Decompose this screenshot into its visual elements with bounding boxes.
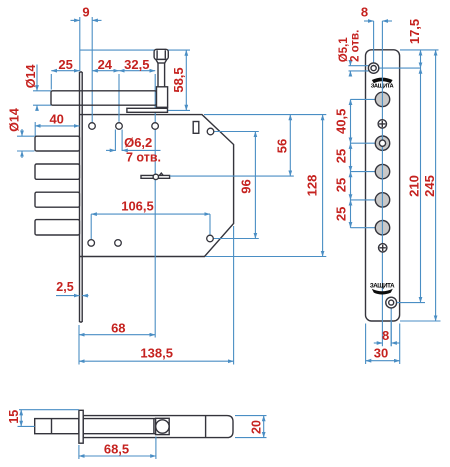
dim 128 line bbox=[322, 115, 324, 257]
bolt segment line bbox=[51, 419, 53, 434]
dim 40 line bbox=[35, 125, 80, 127]
svg-text:9: 9 bbox=[82, 5, 89, 20]
svg-text:128: 128 bbox=[305, 175, 320, 197]
hole H2 bbox=[116, 123, 123, 130]
centre line hole col3 / cam / 68 dim bbox=[154, 74, 156, 338]
logo top bbox=[372, 78, 393, 84]
dim 17,5 + 210 shared line bbox=[420, 50, 422, 68]
svg-text:Ø5,1: Ø5,1 bbox=[338, 37, 350, 63]
bolt B2 bbox=[35, 164, 80, 179]
svg-text:96: 96 bbox=[239, 179, 254, 193]
dim 138.5 line bbox=[79, 360, 234, 362]
chain arrows bbox=[350, 99, 352, 107]
cylinder hole C1 bbox=[375, 92, 389, 106]
hole H1 bbox=[89, 123, 96, 130]
svg-text:245: 245 bbox=[422, 175, 437, 197]
deadbolt assembly (drawn over blue lines) bbox=[51, 49, 168, 112]
cylinder hole C2 bbox=[375, 164, 389, 178]
bottom fixing hole 2otv bbox=[386, 297, 397, 308]
extension bolt tip bbox=[50, 74, 52, 90]
cam extension to 56 bbox=[170, 175, 294, 177]
svg-text:8: 8 bbox=[361, 5, 368, 20]
centre line bbox=[381, 21, 383, 346]
dim 68,5 extensions bbox=[78, 445, 80, 459]
dim 20 extensions bbox=[235, 415, 267, 417]
svg-text:106,5: 106,5 bbox=[121, 198, 154, 213]
dim 8 top bbox=[364, 20, 374, 22]
dim 138.5 right extension bbox=[233, 226, 235, 365]
left chain dim line bbox=[350, 99, 352, 227]
dim 56 line bbox=[289, 115, 291, 177]
dim dia14 lower line bbox=[21, 129, 23, 136]
svg-text:138,5: 138,5 bbox=[140, 345, 173, 360]
svg-text:Ø6,2: Ø6,2 bbox=[124, 135, 152, 150]
plate top extension bbox=[400, 49, 439, 51]
svg-text:15: 15 bbox=[7, 410, 21, 424]
bar body bbox=[83, 416, 233, 438]
dim 106.5 line bbox=[91, 213, 210, 215]
dim dia6.2 line with outside arrows bbox=[106, 149, 115, 151]
bearing roller bbox=[156, 420, 169, 433]
dim 2.5 leader arrows bbox=[56, 295, 80, 297]
hole centre extension bbox=[379, 67, 421, 69]
svg-text:20: 20 bbox=[250, 420, 264, 434]
svg-text:56: 56 bbox=[275, 139, 290, 153]
dim 210 line bbox=[420, 68, 422, 303]
svg-text:40,5: 40,5 bbox=[333, 109, 348, 134]
svg-text:17,5: 17,5 bbox=[407, 19, 422, 44]
dim 68/138.5 left extension bbox=[78, 325, 80, 365]
svg-text:25: 25 bbox=[333, 178, 348, 192]
svg-text:Ø14: Ø14 bbox=[24, 65, 38, 89]
svg-text:32,5: 32,5 bbox=[124, 57, 149, 72]
hole H4 bbox=[207, 128, 214, 135]
cylinder hole C4 bbox=[375, 221, 389, 235]
chain ticks to features bbox=[351, 98, 378, 100]
bolt side view bbox=[35, 419, 79, 434]
blue dimension work, main view bbox=[17, 17, 326, 365]
dim 96 extensions bbox=[214, 131, 259, 133]
case top extension to 56 and 128 bbox=[204, 114, 326, 116]
screw S2 bbox=[379, 244, 387, 252]
dim dia6.2 extensions bbox=[114, 130, 116, 152]
bolt B4 bbox=[35, 220, 80, 235]
dim 40 extension bbox=[34, 122, 36, 136]
dim 245 line bbox=[435, 50, 437, 321]
dim 15 line bbox=[20, 410, 22, 427]
lower bolts bbox=[35, 136, 80, 235]
dim 96 line bbox=[254, 132, 256, 239]
hole H5 bbox=[88, 240, 95, 247]
svg-text:58,5: 58,5 bbox=[171, 67, 186, 92]
plate bottom extension bbox=[400, 320, 441, 322]
extension hole col2 bbox=[118, 74, 120, 122]
bottom view red labels bbox=[7, 410, 263, 457]
dim 9 line bbox=[71, 19, 80, 21]
dim 20 line bbox=[263, 416, 265, 438]
dia5,1 leader lines bbox=[349, 65, 372, 67]
svg-text:Ø14: Ø14 bbox=[8, 108, 22, 132]
dim 68 line bbox=[79, 334, 155, 336]
dim 30 line bbox=[366, 360, 400, 362]
svg-text:40: 40 bbox=[49, 112, 63, 127]
svg-text:68,5: 68,5 bbox=[104, 442, 129, 457]
dim 24 bbox=[92, 70, 119, 72]
dim 58.5 line bbox=[185, 50, 187, 110]
svg-text:68: 68 bbox=[111, 320, 125, 335]
L bracket strip bbox=[127, 108, 168, 112]
cam notch bbox=[159, 173, 163, 175]
dim 8 bottom bbox=[374, 342, 383, 344]
svg-text:2 отв.: 2 отв. bbox=[350, 30, 362, 62]
svg-text:25: 25 bbox=[58, 57, 72, 72]
svg-text:25: 25 bbox=[333, 207, 348, 221]
bottom hole column line bbox=[390, 308, 392, 347]
right view red labels bbox=[333, 5, 437, 361]
cam bump bbox=[153, 174, 158, 179]
top hole column line bbox=[373, 21, 375, 64]
bar division line bbox=[205, 416, 207, 438]
main view red labels bbox=[8, 5, 320, 361]
dim 58.5 top extension bbox=[80, 49, 190, 51]
dim dia14 top extensions bbox=[33, 90, 51, 92]
rod bbox=[158, 63, 165, 91]
screw S1 bbox=[378, 120, 386, 128]
hole H3 bbox=[152, 123, 159, 130]
svg-text:24: 24 bbox=[98, 57, 113, 72]
hole H7 bbox=[207, 235, 214, 242]
faceplate strip left edge bbox=[80, 72, 83, 322]
lock case outline bbox=[80, 115, 234, 257]
bolt tail block bbox=[157, 87, 168, 108]
svg-text:2,5: 2,5 bbox=[56, 280, 73, 294]
svg-text:25: 25 bbox=[333, 149, 348, 163]
dim 58.5 bottom extension bbox=[168, 109, 190, 111]
svg-text:7 отв.: 7 отв. bbox=[126, 151, 161, 165]
faceplate front bbox=[366, 50, 400, 321]
ring hole outer bbox=[375, 136, 389, 150]
hole H6 bbox=[115, 240, 122, 247]
bolt B3 bbox=[35, 192, 80, 207]
dim 15 extensions bbox=[19, 409, 79, 411]
dim 8 bottom extensions bbox=[390, 321, 392, 346]
faceplate edge-on bbox=[79, 410, 83, 443]
cam lever bbox=[141, 175, 170, 178]
knob neck bbox=[156, 59, 167, 63]
inner bolt lines bbox=[83, 419, 155, 434]
knob inner lines bbox=[157, 50, 165, 58]
cylinder hole C3 bbox=[375, 193, 389, 207]
top fixing hole 2otv bbox=[368, 63, 378, 73]
dim 106.5 extensions bbox=[90, 214, 92, 239]
dim 9 extension lines bbox=[79, 17, 81, 71]
svg-text:210: 210 bbox=[406, 175, 421, 197]
dim 30 extensions bbox=[365, 324, 367, 365]
bearing square bbox=[156, 418, 170, 434]
dim dia14 top line bbox=[36, 65, 38, 91]
svg-text:ЗАЩИТА: ЗАЩИТА bbox=[370, 283, 395, 290]
top deadbolt bbox=[51, 91, 157, 105]
case bottom extension to 128 bbox=[206, 256, 327, 258]
svg-text:8: 8 bbox=[382, 328, 389, 343]
dim 68,5 line bbox=[79, 455, 156, 457]
dim 25 bbox=[51, 70, 79, 72]
holes (7x dia 6.2) bbox=[88, 123, 214, 247]
dim dia14 lower extensions bbox=[17, 135, 35, 137]
leader bottom hole bbox=[397, 302, 425, 304]
knob bbox=[154, 49, 168, 59]
bolt B1 bbox=[35, 136, 80, 151]
dim 32.5 bbox=[119, 70, 155, 72]
svg-text:30: 30 bbox=[374, 346, 388, 361]
slot in case top bbox=[193, 122, 199, 134]
